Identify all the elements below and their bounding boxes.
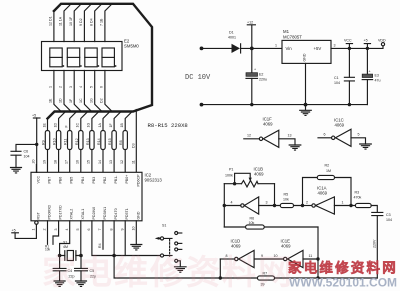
junction regulator gnd — [304, 103, 308, 107]
svg-text:7: 7 — [98, 229, 102, 231]
svg-text:1: 1 — [49, 86, 53, 88]
digit 4 — [102, 48, 117, 67]
power VCC terminal — [344, 39, 353, 51]
svg-text:P1: P1 — [229, 168, 233, 172]
svg-text:11: 11 — [131, 160, 135, 164]
svg-text:PD6CP: PD6CP — [136, 174, 140, 187]
svg-text:9: 9 — [120, 229, 124, 231]
svg-text:WWW.520101.COM: WWW.520101.COM — [289, 276, 397, 290]
junction node11 rail — [316, 276, 319, 279]
op-amp IC1C 4069 — [318, 118, 366, 147]
svg-text:8: 8 — [109, 229, 113, 231]
resistor R6 10k — [224, 217, 318, 230]
svg-text:C3: C3 — [386, 213, 391, 217]
svg-text:4069: 4069 — [263, 122, 273, 127]
resistor R3 470k — [354, 191, 378, 213]
IC2 pin 14 PB2 — [103, 177, 107, 184]
svg-text:1M: 1M — [326, 169, 331, 173]
svg-text:1G: 1G — [87, 123, 91, 128]
svg-text:+5: +5 — [32, 114, 36, 118]
svg-text:E2: E2 — [259, 73, 263, 77]
IC2 pin 9 PD5T1 — [120, 208, 129, 255]
op-amp IC1D 4069 — [220, 239, 283, 268]
wire display pin11 top — [59, 4, 72, 42]
svg-text:C6: C6 — [24, 150, 29, 154]
power +12 terminal — [247, 21, 255, 49]
svg-text:1A: 1A — [98, 123, 102, 128]
op-amp IC1F 4069 — [244, 117, 295, 148]
wire IC1D output down — [219, 259, 221, 278]
IC2 pin 10 GND — [132, 211, 141, 244]
wire display pin2 bottom — [59, 71, 72, 112]
svg-text:R8: R8 — [119, 140, 123, 145]
wire display pin7 top — [100, 4, 113, 42]
power VDD terminal — [378, 39, 386, 46]
svg-text:10k: 10k — [249, 221, 255, 225]
ground under C4 — [54, 281, 65, 286]
resistor R11 — [64, 112, 77, 173]
svg-text:1E: 1E — [42, 123, 46, 128]
S1 contact b — [175, 242, 178, 245]
resistor R8 — [119, 112, 132, 173]
op-amp IC1E 4069 — [274, 239, 320, 268]
svg-text:17: 17 — [65, 160, 69, 164]
svg-text:6: 6 — [87, 229, 91, 231]
IC2 pin 12 PB0 — [125, 175, 129, 184]
svg-text:+5V: +5V — [314, 46, 322, 51]
junction pin8 node — [112, 254, 116, 258]
svg-text:M1: M1 — [283, 29, 290, 34]
resistor R13 — [86, 112, 99, 173]
svg-text:XTAL1: XTAL1 — [81, 209, 85, 220]
svg-text:10k: 10k — [45, 247, 51, 251]
svg-text:R8-R15 220X8: R8-R15 220X8 — [148, 122, 188, 129]
resistor R5 10k — [275, 193, 303, 208]
wire to switch S1 — [114, 255, 160, 257]
svg-text:D3: D3 — [131, 143, 135, 148]
IC2 pin 20 VCC — [32, 160, 41, 184]
svg-text:1C: 1C — [76, 123, 80, 128]
svg-text:20: 20 — [32, 160, 36, 164]
ground under C5 — [76, 281, 87, 286]
svg-text:R5: R5 — [284, 193, 289, 197]
resistor R7 — [258, 272, 275, 287]
ground under S1 — [175, 267, 187, 272]
digit 1 — [50, 48, 65, 67]
svg-text:GND: GND — [136, 211, 140, 219]
svg-text:4: 4 — [231, 201, 233, 205]
svg-text:11: 11 — [309, 254, 313, 258]
resistor R2 1M feedback — [303, 164, 352, 206]
svg-text:3: 3 — [54, 229, 58, 231]
svg-text:19: 19 — [42, 160, 46, 164]
wire display pin9 top — [79, 4, 92, 42]
svg-text:R10: R10 — [53, 138, 57, 145]
svg-text:16: 16 — [76, 160, 80, 164]
svg-text:2: 2 — [306, 201, 308, 205]
wire display pin10 top — [69, 4, 82, 42]
potentiometer P1 100k — [224, 168, 274, 187]
svg-text:104: 104 — [24, 155, 30, 159]
svg-text:PD3IN1: PD3IN1 — [103, 207, 107, 220]
wire display pin3 bottom — [69, 71, 82, 112]
op-amp IC1A 4069 — [301, 186, 356, 215]
svg-text:PD2IN0: PD2IN0 — [92, 207, 96, 220]
svg-text:PB1-: PB1- — [114, 175, 118, 184]
wire regulator output — [331, 46, 383, 49]
svg-text:+5: +5 — [12, 229, 16, 233]
svg-text:1D: 1D — [53, 123, 57, 128]
IC2 pin 5 XTAL1 — [76, 209, 85, 256]
svg-text:D2: D2 — [100, 98, 104, 103]
IC2 pin 18 PB6 — [59, 177, 63, 184]
ground at power rail — [300, 105, 312, 116]
svg-text:5: 5 — [76, 229, 80, 231]
S1 contact d to ground — [175, 259, 178, 262]
resistor R15 — [108, 112, 121, 173]
svg-text:3: 3 — [266, 201, 268, 205]
svg-text:Vin: Vin — [286, 46, 293, 51]
svg-text:3: 3 — [334, 44, 336, 48]
S1 contact a — [175, 232, 178, 235]
wire display pin8 top — [89, 4, 102, 42]
svg-text:7 1B: 7 1B — [100, 18, 104, 26]
capacitor C6 104 at VCC — [11, 118, 38, 172]
switch S1 — [155, 224, 182, 267]
IC2 pin 19 PB7 — [48, 177, 52, 184]
IC2 pin 1 RST — [15, 212, 40, 239]
wire display pin12 top — [49, 11, 54, 42]
svg-text:PD0RXD: PD0RXD — [48, 205, 52, 220]
svg-text:E3: E3 — [375, 74, 379, 78]
svg-text:104: 104 — [334, 81, 340, 85]
svg-text:1G: 1G — [89, 98, 93, 103]
svg-text:2: 2 — [59, 86, 63, 88]
svg-text:GND: GND — [303, 53, 307, 61]
svg-text:12 D1: 12 D1 — [49, 16, 53, 26]
svg-text:R3: R3 — [355, 191, 360, 195]
capacitor C3 104 — [372, 212, 392, 278]
svg-text:R13: R13 — [86, 138, 90, 145]
IC2 pin 2 PD0RXD — [43, 205, 52, 252]
svg-text:4069: 4069 — [231, 244, 241, 249]
DC input terminal - — [200, 103, 204, 107]
svg-text:+: + — [254, 68, 256, 72]
svg-text:DC 10V: DC 10V — [185, 74, 211, 82]
svg-text:5: 5 — [89, 86, 93, 88]
svg-text:家电维修资料网: 家电维修资料网 — [42, 254, 294, 291]
op IC2 90S2313 box — [31, 172, 142, 221]
svg-text:47u: 47u — [375, 79, 381, 83]
power +5 terminal at RST — [12, 229, 19, 233]
display E2 SM5M0 body — [42, 42, 123, 71]
svg-text:PB5: PB5 — [70, 177, 74, 184]
ground at IC1F input — [289, 145, 301, 150]
svg-text:PB7: PB7 — [48, 177, 52, 184]
svg-text:11 1A: 11 1A — [59, 16, 63, 26]
svg-text:10: 10 — [132, 227, 136, 231]
svg-text:+: + — [369, 70, 371, 74]
ground at IC2 pin10 — [131, 245, 142, 250]
display bus cable — [48, 4, 153, 119]
svg-text:9 D2: 9 D2 — [79, 18, 83, 26]
svg-text:4: 4 — [79, 86, 83, 88]
DC input terminal + — [200, 47, 204, 51]
svg-text:R9: R9 — [42, 140, 46, 145]
svg-text:PB2: PB2 — [103, 177, 107, 184]
IC2 pin 4 XTAL2 — [60, 209, 74, 256]
wire display pin6 bottom — [100, 71, 113, 112]
wire node D3 to pin 11 — [131, 110, 136, 173]
resistor R12 — [75, 112, 88, 173]
IC2 pin 3 PD1TXD — [53, 205, 63, 244]
svg-text:4069: 4069 — [318, 191, 328, 196]
IC2 pin 8 PD4T0 — [109, 208, 118, 277]
svg-text:R4: R4 — [98, 243, 102, 248]
svg-text:10k: 10k — [283, 198, 289, 202]
svg-text:+12: +12 — [247, 21, 253, 25]
svg-text:R15: R15 — [108, 138, 112, 145]
power +5 terminal above VCC — [32, 114, 40, 119]
svg-text:PB6: PB6 — [59, 177, 63, 184]
svg-text:8 D4: 8 D4 — [89, 18, 93, 26]
op-amp IC1B 4069 — [223, 167, 277, 215]
svg-text:1D: 1D — [59, 98, 63, 103]
crystal X1 4M — [58, 241, 83, 261]
svg-text:6: 6 — [100, 86, 104, 88]
svg-text:220u: 220u — [259, 78, 267, 82]
svg-text:PB0+: PB0+ — [125, 175, 129, 184]
junction at +12 — [250, 47, 254, 51]
wire regulator gnd pin — [305, 63, 307, 104]
svg-text:VCC: VCC — [36, 176, 40, 184]
svg-text:3: 3 — [69, 86, 73, 88]
svg-text:PD5T1: PD5T1 — [125, 208, 129, 219]
svg-text:C1: C1 — [334, 76, 339, 80]
svg-text:4069: 4069 — [281, 244, 291, 249]
svg-text:R6: R6 — [250, 217, 255, 221]
svg-text:1B: 1B — [120, 123, 124, 128]
svg-text:13: 13 — [109, 160, 113, 164]
svg-text:100k: 100k — [225, 174, 233, 178]
power +5 terminal — [364, 39, 371, 51]
svg-text:VCC: VCC — [344, 39, 352, 43]
svg-text:1: 1 — [32, 229, 36, 231]
svg-text:1: 1 — [275, 44, 277, 48]
svg-text:SM5M0: SM5M0 — [124, 44, 139, 49]
svg-text:+5: +5 — [364, 39, 368, 43]
svg-text:R12: R12 — [75, 138, 79, 145]
svg-text:PB3: PB3 — [92, 177, 96, 184]
svg-text:2: 2 — [43, 229, 47, 231]
svg-text:90S2313: 90S2313 — [145, 178, 163, 183]
svg-text:4001: 4001 — [228, 36, 236, 40]
svg-text:220V: 220V — [372, 239, 376, 248]
svg-text:XTAL2: XTAL2 — [70, 209, 74, 220]
svg-text:12: 12 — [247, 134, 251, 138]
svg-text:12: 12 — [120, 160, 124, 164]
IC2 pin 6 PD2INT0 — [87, 207, 114, 256]
svg-text:18: 18 — [53, 160, 57, 164]
junction IC1D rail — [219, 276, 222, 279]
resistor R9 — [42, 119, 50, 173]
S1 contact c — [175, 248, 178, 251]
digit 2 — [67, 48, 82, 67]
IC2 pin 7 PD3INT1 — [98, 207, 107, 249]
IC2 pin 15 PB3 — [92, 177, 96, 184]
svg-text:1C: 1C — [79, 98, 83, 103]
svg-text:D1: D1 — [229, 31, 234, 35]
svg-text:R2: R2 — [325, 164, 330, 168]
power bottom rail — [202, 104, 368, 106]
ground at IC1C input — [360, 144, 372, 149]
svg-text:RST: RST — [36, 212, 40, 220]
svg-text:14: 14 — [98, 160, 102, 164]
S1 upper pole lever — [157, 237, 172, 239]
wire display pin5 bottom — [89, 71, 102, 112]
regulator M1 MC7805T — [275, 29, 336, 63]
svg-text:104: 104 — [386, 218, 392, 222]
svg-text:S1: S1 — [162, 224, 166, 228]
svg-text:1E: 1E — [49, 98, 53, 103]
junction E2 rail — [250, 103, 253, 106]
node 11 rail — [317, 227, 319, 278]
S1 lower pole lever — [164, 255, 172, 257]
svg-text:10 1F: 10 1F — [69, 16, 73, 26]
S1 mechanical link — [169, 240, 171, 257]
svg-text:X1: X1 — [63, 241, 67, 245]
svg-text:R11: R11 — [64, 139, 68, 145]
capacitor E2 220u electrolytic — [246, 48, 267, 104]
capacitor C5 22p — [75, 256, 96, 282]
svg-text:4M: 4M — [63, 245, 68, 249]
digit 3 — [85, 48, 100, 67]
svg-text:R14: R14 — [97, 138, 101, 145]
svg-text:PD4T0: PD4T0 — [114, 208, 118, 219]
capacitor C1 104 — [334, 48, 354, 106]
svg-text:4069: 4069 — [254, 172, 264, 177]
node 4 rail — [223, 184, 225, 227]
wire input to diode — [202, 47, 232, 49]
diode D1 4001 — [228, 31, 282, 54]
bottom rail — [114, 277, 377, 279]
svg-text:15: 15 — [87, 160, 91, 164]
svg-text:4: 4 — [65, 229, 69, 231]
resistor R10 — [53, 112, 66, 173]
svg-text:PD1TXD: PD1TXD — [59, 205, 63, 220]
capacitor E3 47u electrolytic — [362, 48, 380, 104]
svg-text:MC7805T: MC7805T — [283, 35, 302, 40]
IC2 pin 17 PB5 — [70, 177, 74, 184]
svg-text:VDD: VDD — [378, 39, 386, 43]
svg-text:470k: 470k — [354, 196, 362, 200]
svg-text:PB4: PB4 — [81, 177, 85, 184]
svg-text:家电维修资料网: 家电维修资料网 — [288, 260, 398, 276]
IC2 pin 11 PD6CP — [136, 174, 140, 187]
svg-text:4069: 4069 — [335, 123, 345, 128]
wire display pin1 bottom — [49, 71, 62, 112]
IC2 pin 16 PB4 — [81, 177, 85, 184]
svg-text:13: 13 — [288, 134, 292, 138]
capacitor C4 22p — [53, 256, 74, 282]
ground under C6 — [11, 168, 22, 173]
svg-text:1: 1 — [342, 201, 344, 205]
svg-text:6: 6 — [324, 133, 326, 137]
wire display pin4 bottom — [79, 71, 92, 112]
svg-text:5: 5 — [358, 133, 360, 137]
resistor R14 — [97, 112, 110, 173]
IC2 pin 13 PB1 — [114, 175, 118, 184]
